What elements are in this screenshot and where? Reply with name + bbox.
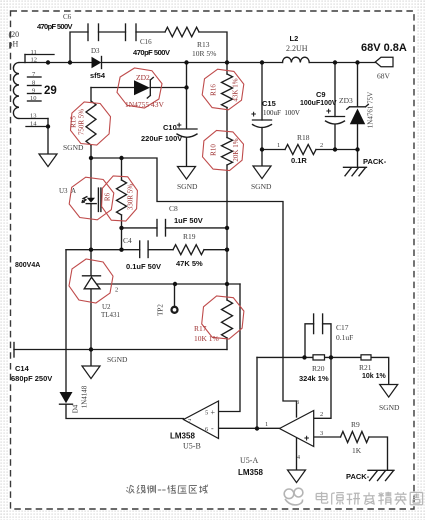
- svg-text:C17: C17: [336, 323, 349, 332]
- svg-text:U2: U2: [102, 303, 111, 311]
- svg-text:SGND: SGND: [63, 143, 84, 152]
- svg-text:3: 3: [320, 430, 323, 437]
- svg-text:+: +: [326, 106, 331, 116]
- svg-text:330R 5%: 330R 5%: [127, 184, 135, 210]
- svg-text:324k 1%: 324k 1%: [299, 374, 329, 383]
- svg-text:800V4A: 800V4A: [15, 262, 40, 269]
- svg-text:220uF 100V: 220uF 100V: [141, 134, 182, 143]
- svg-text:LM358: LM358: [238, 468, 263, 477]
- svg-text:C14: C14: [15, 364, 30, 373]
- svg-text:13: 13: [30, 113, 37, 120]
- svg-text:R9: R9: [351, 420, 360, 429]
- svg-text:100uF100V: 100uF100V: [300, 100, 337, 107]
- svg-text:R17: R17: [194, 324, 207, 333]
- svg-text:10R 5%: 10R 5%: [192, 49, 216, 58]
- svg-text:1N4761 75V: 1N4761 75V: [367, 92, 375, 128]
- svg-text:4: 4: [297, 455, 300, 461]
- svg-text:0.1R: 0.1R: [291, 156, 307, 165]
- svg-text:470pF 500V: 470pF 500V: [37, 22, 73, 31]
- svg-text:PACK-: PACK-: [363, 157, 387, 166]
- svg-text:43K 1%: 43K 1%: [232, 78, 240, 101]
- svg-text:1uF 50V: 1uF 50V: [174, 216, 203, 225]
- svg-text:68V 0.8A: 68V 0.8A: [361, 42, 407, 54]
- svg-text:20K 1%: 20K 1%: [232, 138, 240, 161]
- svg-text:sf54: sf54: [90, 71, 106, 80]
- svg-text:SGND: SGND: [107, 355, 128, 364]
- svg-text:U5-A: U5-A: [240, 456, 258, 465]
- svg-text:+: +: [304, 433, 309, 443]
- svg-text:C16: C16: [140, 38, 152, 46]
- svg-text:U5-B: U5-B: [183, 442, 201, 451]
- svg-text:12: 12: [31, 57, 38, 64]
- svg-text:1N4148: 1N4148: [81, 385, 89, 408]
- svg-text:470pF 500V: 470pF 500V: [133, 48, 170, 57]
- svg-text:+: +: [251, 109, 256, 119]
- svg-text:29: 29: [44, 85, 57, 97]
- svg-text:ZD3: ZD3: [339, 96, 353, 105]
- svg-text:2: 2: [320, 142, 323, 149]
- svg-text:C9: C9: [316, 90, 326, 99]
- svg-text:10k 1%: 10k 1%: [362, 373, 387, 380]
- svg-text:10K 1%: 10K 1%: [194, 334, 219, 343]
- svg-text:SGND: SGND: [251, 182, 272, 191]
- svg-text:1K: 1K: [352, 446, 362, 455]
- svg-text:68V: 68V: [377, 72, 391, 81]
- svg-text:pH: pH: [9, 40, 19, 49]
- svg-text:2.2UH: 2.2UH: [286, 44, 308, 53]
- svg-text:R18: R18: [297, 133, 310, 142]
- svg-text:11: 11: [31, 49, 37, 56]
- svg-text:TP2: TP2: [157, 304, 165, 316]
- svg-text:100uF 100V: 100uF 100V: [263, 109, 300, 117]
- svg-text:1N4755 43V: 1N4755 43V: [125, 100, 165, 109]
- svg-text:ZD2: ZD2: [136, 73, 150, 82]
- svg-text:1: 1: [265, 421, 268, 428]
- svg-text:PACK-: PACK-: [346, 472, 370, 481]
- svg-text:R15: R15: [70, 116, 78, 128]
- svg-text:680pF 250V: 680pF 250V: [11, 374, 52, 383]
- svg-text:LM358: LM358: [170, 432, 195, 441]
- svg-text:14: 14: [30, 121, 37, 128]
- svg-text:C10: C10: [163, 123, 177, 132]
- svg-text:0.1uF 50V: 0.1uF 50V: [126, 262, 161, 271]
- svg-text:R21: R21: [359, 363, 372, 372]
- svg-text:TL431: TL431: [101, 311, 121, 319]
- svg-text:2: 2: [115, 287, 118, 294]
- svg-text:R19: R19: [183, 232, 196, 241]
- svg-text:1: 1: [277, 142, 280, 149]
- svg-text:2: 2: [320, 411, 323, 418]
- svg-text:0.1uF: 0.1uF: [336, 333, 353, 342]
- svg-text:D4: D4: [72, 404, 80, 413]
- svg-text:L2: L2: [290, 34, 299, 43]
- svg-text:C6: C6: [63, 13, 72, 21]
- svg-text:D3: D3: [91, 47, 100, 55]
- svg-text:U3: U3: [59, 187, 68, 195]
- svg-text:R16: R16: [210, 84, 218, 96]
- svg-text:SGND: SGND: [177, 182, 198, 191]
- svg-text:R20: R20: [312, 364, 325, 373]
- svg-text:47K 5%: 47K 5%: [176, 259, 203, 268]
- svg-text:C4: C4: [123, 236, 132, 245]
- svg-text:R10: R10: [210, 144, 218, 156]
- svg-text:9: 9: [32, 88, 35, 95]
- svg-text:(20: (20: [9, 30, 20, 39]
- svg-text:8: 8: [296, 400, 299, 406]
- svg-text:SGND: SGND: [379, 403, 400, 412]
- svg-text:+: +: [211, 408, 216, 417]
- svg-text:8: 8: [32, 80, 35, 87]
- svg-text:R13: R13: [197, 40, 210, 49]
- svg-text:R6: R6: [104, 192, 112, 201]
- svg-text:5: 5: [205, 410, 208, 417]
- svg-text:C8: C8: [169, 204, 178, 213]
- svg-text:750R 5%: 750R 5%: [78, 109, 86, 135]
- svg-text:A: A: [71, 187, 76, 195]
- svg-text:C15: C15: [262, 99, 276, 108]
- svg-text:-: -: [211, 424, 214, 433]
- svg-text:+: +: [177, 120, 182, 130]
- svg-text:10: 10: [30, 95, 37, 102]
